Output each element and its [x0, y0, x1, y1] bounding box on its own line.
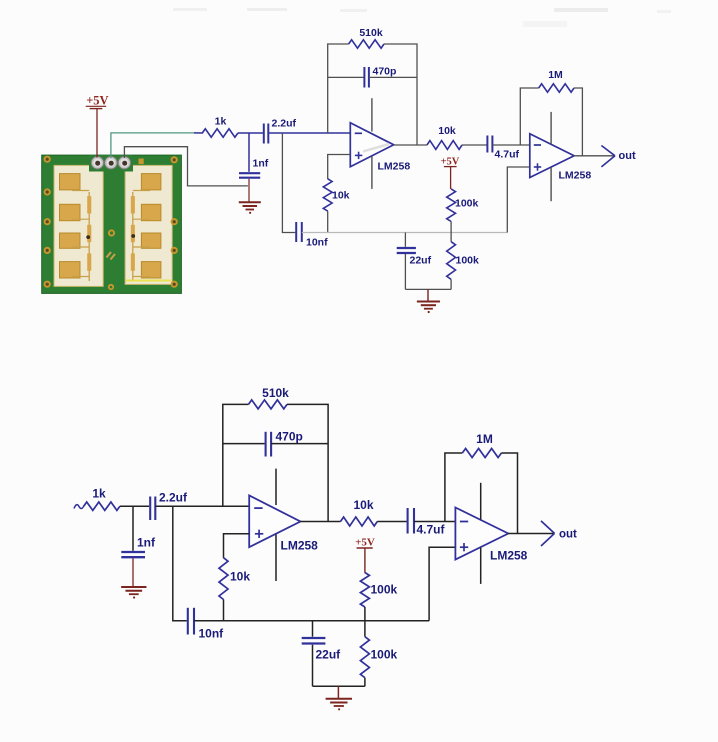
- capacitor C2b 2.2uf: [150, 497, 155, 521]
- capacitor C2 2.2uf: [264, 124, 269, 144]
- resistor R6b 100k (lower): [360, 637, 369, 678]
- resistor R4 10k: [427, 141, 462, 150]
- resistor R3 10k (vertical): [323, 179, 332, 211]
- wire vref line (bottom): [194, 620, 429, 622]
- wire bottom rail: [405, 288, 451, 290]
- svg-text:10nf: 10nf: [199, 627, 225, 641]
- pin 3 (GND): [118, 157, 130, 169]
- wire 22uf stub (bottom): [312, 621, 314, 637]
- svg-text:10k: 10k: [230, 570, 250, 584]
- svg-text:1nf: 1nf: [137, 536, 156, 550]
- wire feedback loop left (bottom): [223, 404, 249, 506]
- svg-text:out: out: [619, 150, 636, 162]
- resistor R4b 10k: [341, 517, 378, 526]
- capacitor C4 10nf: [296, 222, 302, 242]
- svg-text:10k: 10k: [438, 125, 456, 137]
- capacitor C1b 1nf: [121, 506, 145, 557]
- resistor R2b 510k: [249, 400, 288, 409]
- capacitor C4b 10nf: [188, 608, 194, 635]
- node out arrow: [601, 146, 615, 167]
- wire 100k to vref (bottom): [364, 607, 366, 621]
- ground (input filter): [239, 202, 261, 214]
- wire 10k to 4.7uf: [462, 144, 487, 146]
- wire 22uf down (bottom): [312, 645, 314, 687]
- resistor R7b 1M: [462, 449, 501, 458]
- svg-text:+5V: +5V: [86, 93, 108, 107]
- svg-text:2.2uf: 2.2uf: [159, 491, 188, 505]
- pin 2 (IF out): [105, 157, 117, 169]
- wire feedback loop right: [384, 44, 417, 145]
- wire op-amp + input (bottom): [224, 534, 250, 558]
- op-amp U2b LM258 (stage 2, bottom): [455, 508, 508, 560]
- wire 1k to 2.2uf (bottom): [120, 505, 149, 507]
- svg-text:22uf: 22uf: [316, 648, 342, 662]
- wire op-amp1 output: [394, 144, 427, 146]
- capacitor C3b 470p: [266, 432, 272, 457]
- wire vref to 100k lower: [450, 233, 452, 242]
- capacitor C5b 4.7uf: [408, 508, 414, 534]
- svg-text:100k: 100k: [371, 648, 398, 662]
- svg-text:470p: 470p: [373, 66, 397, 78]
- capacitor C6b 22uf: [302, 638, 326, 644]
- resistor R3b 10k (vertical): [219, 558, 228, 600]
- svg-text:LM258: LM258: [281, 539, 319, 553]
- pin V- (U1b): [275, 535, 277, 582]
- svg-text:1M: 1M: [476, 432, 493, 446]
- wire op-amp2 output: [574, 155, 614, 157]
- wire 100k bottom: [450, 279, 452, 289]
- resistor R6 100k (lower): [447, 242, 456, 280]
- wire 10k to vref (bottom): [223, 600, 225, 621]
- +5V supply (divider): [441, 157, 460, 168]
- pin V+ (U2): [550, 112, 552, 144]
- wire +5V to pin 1: [96, 109, 98, 158]
- wire 1M loop left (bottom): [445, 453, 462, 522]
- +5V supply (divider, bottom): [355, 537, 375, 549]
- ground (divider): [417, 302, 440, 314]
- wire vref to 100k lower (bottom): [364, 621, 366, 637]
- svg-text:100k: 100k: [456, 255, 480, 267]
- wire pin 2 to input (teal): [111, 133, 194, 158]
- wire 4.7uf to op-amp2 (bottom): [414, 521, 455, 523]
- capacitor C6 22uf: [397, 248, 416, 253]
- wire feedback loop left: [328, 44, 349, 133]
- svg-text:470p: 470p: [276, 430, 303, 444]
- resistor R5b 100k (upper): [360, 573, 369, 608]
- svg-text:LM258: LM258: [559, 170, 592, 182]
- wire ground stem: [427, 289, 429, 300]
- svg-text:10nf: 10nf: [306, 237, 328, 249]
- svg-text:1nf: 1nf: [253, 158, 269, 170]
- wire 22uf down: [404, 254, 406, 289]
- wire 470p branch left: [328, 76, 364, 78]
- node input (bottom): [74, 505, 84, 509]
- pin V+ (U1b): [275, 469, 277, 505]
- wire 4.7uf to op-amp2 inverting input: [492, 144, 529, 146]
- resistor R7 1M: [539, 84, 574, 92]
- node out arrow (bottom): [541, 521, 555, 546]
- +5V supply (PCB): [86, 93, 109, 108]
- wire pin 3 to ground node: [124, 147, 247, 186]
- svg-text:22uf: 22uf: [410, 255, 432, 267]
- wire 470p branch right: [369, 76, 417, 78]
- capacitor C3 470p: [364, 67, 369, 88]
- wire 100k to vref line: [450, 222, 452, 233]
- svg-text:+5V: +5V: [441, 157, 460, 168]
- wire op-amp2 output (bottom): [508, 533, 553, 535]
- svg-text:1M: 1M: [548, 69, 563, 81]
- svg-text:2.2uf: 2.2uf: [272, 118, 297, 130]
- svg-text:1k: 1k: [215, 116, 227, 128]
- svg-text:1k: 1k: [92, 487, 106, 501]
- wire +5V to 100k (bottom): [364, 548, 366, 573]
- wire 1k to 2.2uf: [238, 132, 263, 134]
- wire 22uf stub: [404, 233, 406, 247]
- capacitor C5 4.7uf: [487, 136, 492, 153]
- wire 1nf to ground: [248, 179, 250, 202]
- svg-text:LM258: LM258: [378, 161, 411, 173]
- wire 2.2uf to op-amp inverting input: [268, 132, 350, 134]
- wire 2.2uf to op-amp (bottom): [155, 505, 249, 507]
- ground (input filter, bottom): [121, 587, 146, 599]
- svg-text:100k: 100k: [371, 583, 398, 597]
- svg-text:out: out: [559, 529, 577, 541]
- wire 100k bottom (bottom): [364, 678, 366, 687]
- wire 470p branch right (bottom): [271, 443, 328, 445]
- svg-text:10k: 10k: [353, 498, 373, 512]
- resistor R2 510k: [349, 40, 384, 48]
- svg-text:510k: 510k: [262, 386, 289, 400]
- svg-text:+5V: +5V: [355, 537, 375, 549]
- wire 1M loop right: [574, 88, 582, 156]
- wire 1M loop right (bottom): [501, 453, 517, 534]
- wire inverting node down (bottom): [173, 506, 187, 621]
- resistor R1b 1k: [84, 502, 120, 510]
- wire input lead: [194, 132, 203, 134]
- op-amp U1b LM258 (stage 1, bottom): [249, 495, 300, 547]
- ground (divider, bottom): [326, 699, 352, 711]
- wire vref to op-amp2 + input (bottom): [429, 547, 455, 621]
- pin V- (U2): [550, 168, 552, 202]
- wire bottom rail (bottom): [313, 685, 365, 687]
- resistor R5 100k (upper): [447, 189, 456, 222]
- pin V- (U1): [371, 157, 373, 189]
- svg-text:4.7uf: 4.7uf: [495, 149, 520, 161]
- pin V+ (U1): [371, 98, 373, 131]
- pin 1 (+5V): [91, 157, 103, 169]
- wire 1M loop left: [520, 88, 538, 145]
- PCB module HB100 sensor board: [42, 155, 182, 293]
- op-amp U2 LM258 (stage 2): [530, 134, 574, 178]
- wire 10k to 4.7uf (bottom): [377, 521, 406, 523]
- wire vref to op-amp2 + input: [507, 167, 530, 233]
- pin V- (U2b): [480, 548, 482, 584]
- wire ground stem (bottom): [337, 686, 339, 698]
- svg-text:LM258: LM258: [490, 549, 528, 563]
- wire feedback loop right (bottom): [287, 404, 328, 521]
- svg-text:510k: 510k: [359, 27, 383, 39]
- wire 10k to vref line: [327, 211, 329, 232]
- svg-text:4.7uf: 4.7uf: [417, 523, 446, 537]
- wire inverting node down: [282, 133, 295, 233]
- op-amp U1 LM258 (stage 1): [350, 123, 393, 167]
- wire 470p branch left (bottom): [223, 443, 265, 445]
- svg-text:100k: 100k: [455, 198, 479, 210]
- wire op-amp + input: [328, 155, 351, 180]
- svg-text:10k: 10k: [332, 190, 350, 202]
- wire 1nf to ground (bottom): [132, 558, 134, 586]
- pin V+ (U2b): [480, 483, 482, 520]
- wire op-amp1 output (bottom): [300, 521, 340, 523]
- wire vref line (faint): [302, 232, 508, 234]
- wire +5V to 100k: [450, 167, 452, 189]
- capacitor C1 1nf: [239, 133, 260, 178]
- resistor R1 1k: [202, 129, 238, 137]
